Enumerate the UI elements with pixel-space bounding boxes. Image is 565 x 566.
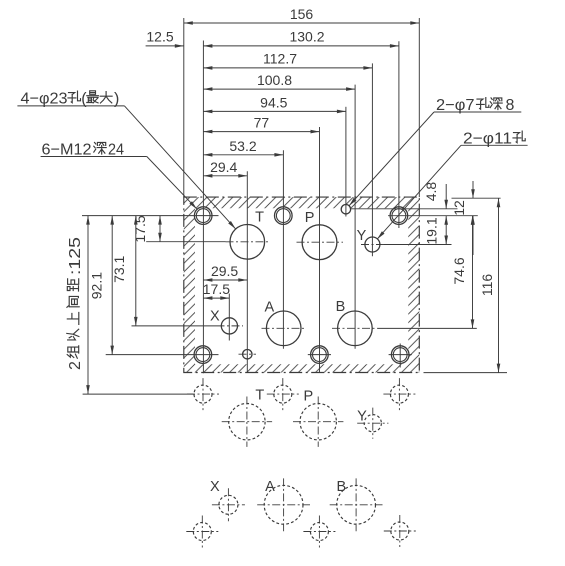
svg-text:2−φ7: 2−φ7	[436, 97, 475, 114]
svg-text:12.5: 12.5	[146, 29, 173, 45]
svg-text:112.7: 112.7	[263, 51, 297, 67]
svg-text:6−M12: 6−M12	[42, 142, 92, 159]
svg-text:92.1: 92.1	[88, 272, 104, 299]
svg-text:156: 156	[290, 6, 314, 22]
svg-text:29.4: 29.4	[210, 159, 237, 175]
svg-text:P: P	[303, 389, 313, 405]
svg-text:(: (	[81, 91, 87, 108]
svg-text:130.2: 130.2	[289, 29, 324, 45]
svg-text:77: 77	[254, 115, 270, 131]
svg-text:P: P	[305, 210, 315, 226]
svg-text:17.5: 17.5	[132, 215, 148, 242]
svg-text:24: 24	[108, 142, 124, 159]
svg-text:8: 8	[506, 97, 515, 114]
svg-text:94.5: 94.5	[260, 94, 287, 110]
svg-text:A: A	[265, 479, 275, 495]
svg-text:116: 116	[479, 274, 495, 297]
svg-text:4.8: 4.8	[423, 182, 439, 202]
svg-text:74.6: 74.6	[451, 257, 467, 284]
svg-text:4−φ23: 4−φ23	[21, 91, 68, 108]
svg-text:19.1: 19.1	[424, 217, 440, 244]
svg-text:): )	[114, 91, 119, 108]
svg-text:Y: Y	[357, 228, 367, 244]
svg-text:17.5: 17.5	[203, 281, 230, 297]
svg-text:B: B	[336, 479, 346, 495]
svg-text:X: X	[210, 309, 220, 325]
svg-text:X: X	[210, 479, 220, 495]
svg-text::125: :125	[67, 237, 84, 275]
svg-text:12: 12	[451, 200, 467, 216]
svg-text:29.5: 29.5	[211, 263, 238, 279]
svg-text:T: T	[255, 388, 264, 404]
svg-text:Y: Y	[357, 409, 367, 425]
svg-text:T: T	[255, 210, 264, 226]
svg-text:53.2: 53.2	[229, 138, 256, 154]
svg-text:100.8: 100.8	[257, 72, 292, 88]
svg-text:A: A	[264, 300, 274, 316]
svg-text:2: 2	[67, 361, 84, 370]
svg-text:73.1: 73.1	[111, 255, 127, 282]
svg-text:B: B	[336, 299, 346, 315]
